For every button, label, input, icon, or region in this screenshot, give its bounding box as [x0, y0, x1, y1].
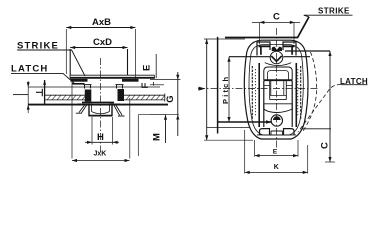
strike hook right — [283, 42, 296, 56]
ladder rails — [259, 63, 296, 127]
screw head right — [116, 85, 124, 89]
svg-text:Pitch: Pitch — [221, 75, 230, 104]
svg-text:G: G — [165, 95, 176, 102]
strike bar — [70, 75, 155, 78]
left thickness dim — [13, 81, 30, 113]
screw head left — [84, 85, 92, 89]
svg-text:F: F — [140, 83, 151, 89]
leader LATCH right (dashed) — [298, 85, 341, 133]
rivet left — [85, 90, 92, 102]
dimension F tick — [153, 82, 155, 86]
svg-text:C: C — [273, 12, 280, 23]
pointer to pivot — [218, 121, 272, 123]
hook level line right — [285, 50, 330, 52]
pawl arm right — [114, 105, 125, 117]
dimension Pitch — [227, 57, 230, 122]
pointer line latch bottom right — [302, 128, 331, 130]
svg-text:K: K — [274, 164, 279, 171]
svg-text:C: C — [320, 142, 331, 149]
swing arc dashed right — [303, 52, 317, 131]
foot right — [284, 129, 295, 135]
latch body inner — [249, 45, 303, 135]
svg-text:CxD: CxD — [93, 37, 112, 48]
latch base plate (thick, below panel) — [28, 104, 168, 106]
svg-text:E: E — [142, 65, 153, 71]
G reference lines — [150, 79, 181, 81]
dimension E (vertical, small) — [155, 54, 157, 78]
pointer arrowhead — [266, 120, 272, 124]
foot left — [260, 129, 270, 135]
smile spring curve — [265, 63, 292, 66]
panel cutout line — [207, 127, 251, 129]
cam circle + notch — [270, 51, 283, 64]
leader STRIKE right — [304, 15, 353, 17]
strike standoff right — [122, 79, 139, 82]
rod level line — [229, 56, 310, 58]
pawl arm left — [76, 105, 87, 114]
dimension C (top) — [252, 21, 300, 44]
screw bracket on panel — [36, 89, 42, 97]
M reference lines — [137, 115, 139, 156]
dimension AxB — [66, 26, 135, 80]
cup top plate — [82, 101, 114, 103]
strike bar (top, open position) — [225, 17, 309, 38]
svg-text:JxK: JxK — [94, 151, 107, 158]
svg-text:M: M — [152, 133, 163, 141]
dimension H — [85, 117, 119, 145]
keeper plate — [270, 81, 287, 96]
svg-text:E: E — [273, 148, 278, 155]
latch body outer — [244, 40, 308, 139]
dimension JxK — [72, 82, 130, 162]
dimension G — [176, 72, 179, 136]
leader STRIKE — [17, 50, 85, 76]
svg-text:H: H — [97, 132, 104, 143]
panel left edge — [44, 80, 46, 105]
serration left — [252, 66, 255, 119]
serration right — [298, 66, 301, 119]
strike rod section — [272, 47, 282, 51]
svg-text:AxB: AxB — [92, 17, 111, 28]
cup wings — [78, 103, 121, 105]
svg-text:STRIKE: STRIKE — [318, 7, 350, 16]
strike hook left — [257, 42, 270, 56]
dimension C (right vertical) — [325, 51, 335, 162]
flange top line — [28, 86, 160, 88]
rung lines — [264, 86, 292, 104]
bottom tab — [257, 131, 296, 135]
spring housing block — [264, 104, 292, 113]
dimension K — [245, 130, 308, 174]
cam housing block — [264, 67, 292, 80]
centerline latch axis — [100, 58, 102, 152]
pivot circle — [271, 115, 282, 126]
cup body — [89, 103, 113, 116]
dimension E (bottom of right view) — [255, 140, 298, 157]
strike standoff left — [71, 79, 88, 82]
dimension CxD — [70, 46, 127, 75]
dimension M — [164, 115, 167, 143]
svg-text:LATCH: LATCH — [11, 64, 48, 75]
panel hatched left — [45, 95, 86, 100]
rivet right — [118, 89, 125, 101]
centerline vertical — [276, 28, 278, 150]
panel hatched right — [124, 94, 165, 102]
panel edge (rear view) — [217, 37, 219, 134]
centerline arrow — [199, 87, 206, 91]
dimension A — [204, 39, 253, 140]
centerline horizontal — [198, 88, 318, 90]
leader LATCH — [11, 73, 75, 83]
